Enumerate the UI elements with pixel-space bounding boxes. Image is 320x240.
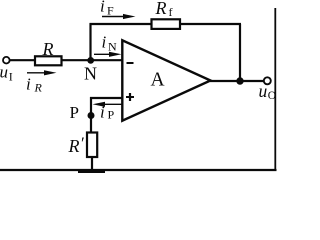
ground rail bottom line [0,169,277,171]
ground bar [78,169,105,173]
label i_P [100,103,115,122]
current arrow i_R [27,70,57,75]
node P junction dot [88,112,95,119]
wire R to op-amp inverting input [62,59,123,61]
label i_R [26,75,43,95]
resistor R' [87,133,97,158]
label R' [68,134,85,157]
op-amp minus sign [127,62,134,64]
wire non-inverting input [90,97,122,99]
svg-text:i: i [102,33,107,52]
op-amp A triangle [122,40,210,120]
svg-text:P: P [70,103,79,122]
svg-text:I: I [9,70,13,84]
svg-text:N: N [84,64,97,84]
svg-text:i: i [100,0,105,16]
label i_N [102,33,118,54]
label u_I [0,63,13,84]
svg-text:′: ′ [81,134,85,153]
wire feedback down to output node [239,24,241,81]
wire P node vertical [90,97,92,133]
frame right border [274,8,276,170]
input terminal u_I circle [3,57,10,64]
wire op-amp output [210,80,264,82]
svg-text:R: R [68,136,80,156]
label P [70,103,79,122]
node N junction dot [87,57,94,64]
svg-text:R: R [42,39,54,59]
svg-text:u: u [0,63,8,82]
svg-text:N: N [108,40,117,54]
current arrow i_N [94,52,122,57]
label i_F [100,0,114,18]
wire R' to ground [91,157,93,170]
svg-text:P: P [108,108,115,122]
wire feedback top right segment [180,23,241,25]
label N [84,64,97,84]
svg-text:A: A [151,70,165,91]
svg-text:i: i [26,75,31,94]
label R [42,39,54,59]
resistor Rf [152,19,181,29]
op-amp plus sign [126,93,134,101]
svg-text:R: R [34,81,43,95]
wire node N up to feedback [89,23,91,60]
label u_O [259,81,277,102]
svg-text:i: i [100,103,105,122]
svg-text:u: u [259,81,268,101]
svg-text:F: F [107,4,114,18]
svg-text:R: R [155,0,167,18]
svg-text:O: O [268,90,276,102]
output terminal u_O circle [264,77,271,84]
svg-text:f: f [169,5,173,19]
current arrow i_F [102,14,136,19]
wire input to R [10,59,35,61]
current arrow i_P [93,102,122,107]
label R_f [155,0,173,19]
output node junction dot [236,77,243,84]
wire feedback top left segment [90,23,152,25]
op-amp label A [151,70,165,91]
resistor R [35,56,62,65]
